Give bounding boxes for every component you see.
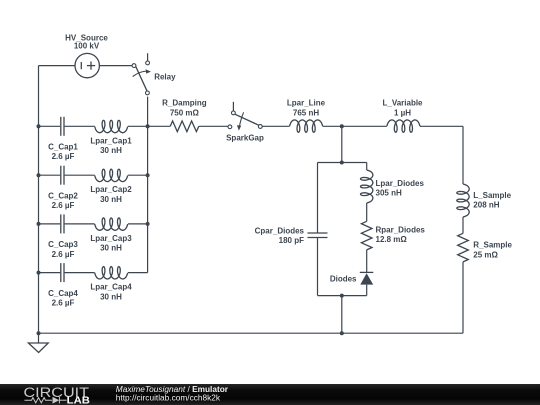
capacitor Cpar_Diodes xyxy=(308,233,328,238)
node branch split top xyxy=(340,161,344,165)
node right cap rail row2 xyxy=(146,173,150,177)
wire right branch top to Lpar_Diodes xyxy=(366,163,368,171)
svg-text:C_Cap42.6 µF: C_Cap42.6 µF xyxy=(48,289,78,308)
wire branch to bottom rail xyxy=(341,296,343,334)
wire right rail upper xyxy=(462,126,464,184)
node left rail bottom / ground xyxy=(37,331,41,335)
inductor Lpar_Cap1 xyxy=(95,120,128,132)
svg-text:HV_Source100 kV: HV_Source100 kV xyxy=(65,33,108,50)
node main wire to branch xyxy=(340,124,344,128)
wire left rail xyxy=(38,66,40,334)
wire R_Damping to SparkGap xyxy=(199,125,228,127)
wire Lpar_Cap1 to right rail xyxy=(128,125,148,127)
wire Lpar_Diodes to Rpar_Diodes xyxy=(366,203,368,221)
svg-text:Rpar_Diodes12.8 mΩ: Rpar_Diodes12.8 mΩ xyxy=(376,225,426,244)
wire row1 left rail to C_Cap1 xyxy=(39,125,61,127)
svg-text:Lpar_Diodes305 nH: Lpar_Diodes305 nH xyxy=(376,179,425,198)
footer bar xyxy=(0,384,540,405)
wire C_Cap3 to Lpar_Cap3 xyxy=(65,223,95,225)
CircuitLab logo schematic: wire, resistor, diode xyxy=(25,397,67,403)
capacitor C_Cap2 xyxy=(61,166,64,185)
wire HV source to relay xyxy=(99,65,132,67)
wire bottom rail xyxy=(39,332,464,334)
wire L_Variable to right rail xyxy=(420,125,463,127)
wire row4 left rail to C_Cap4 xyxy=(39,272,61,274)
node left rail row1 xyxy=(37,124,41,128)
wire Lpar_Cap3 to right rail xyxy=(128,223,148,225)
svg-text:SparkGap: SparkGap xyxy=(226,134,264,143)
wire row2 left rail to C_Cap2 xyxy=(39,174,61,176)
wire right rail between L_Sample and R_Sample xyxy=(462,217,464,233)
node left rail row2 xyxy=(37,173,41,177)
svg-text:Diodes: Diodes xyxy=(330,275,357,284)
resistor Rpar_Diodes xyxy=(361,221,372,250)
svg-text:Cpar_Diodes180 pF: Cpar_Diodes180 pF xyxy=(255,226,305,245)
svg-text:Lpar_Cap330 nH: Lpar_Cap330 nH xyxy=(90,234,132,253)
svg-text:http://circuitlab.com/cch8k2k: http://circuitlab.com/cch8k2k xyxy=(116,392,221,402)
capacitor C_Cap4 xyxy=(61,263,64,282)
node right cap rail row3 xyxy=(146,222,150,226)
inductor Lpar_Line xyxy=(290,120,323,132)
ground xyxy=(28,333,48,352)
svg-text:L_Sample208 nH: L_Sample208 nH xyxy=(473,191,511,210)
wire row3 left rail to C_Cap3 xyxy=(39,223,61,225)
wire branch bottom bar xyxy=(318,295,367,297)
capacitor C_Cap1 xyxy=(61,117,64,136)
wire node down to branch split xyxy=(341,126,343,162)
wire C_Cap4 to Lpar_Cap4 xyxy=(65,272,95,274)
wire left branch lower (from Cpar_Diodes) xyxy=(317,238,319,296)
resistor R_Damping xyxy=(170,121,199,132)
svg-text:L_Variable1 µH: L_Variable1 µH xyxy=(382,99,423,118)
svg-text:R_Sample25 mΩ: R_Sample25 mΩ xyxy=(473,241,512,260)
node left rail row3 xyxy=(37,222,41,226)
inductor L_Sample xyxy=(457,184,469,217)
svg-text:Lpar_Cap430 nH: Lpar_Cap430 nH xyxy=(90,283,132,302)
capacitor C_Cap3 xyxy=(61,214,64,233)
svg-text:Lpar_Cap230 nH: Lpar_Cap230 nH xyxy=(90,185,132,204)
wire Lpar_Line to node junction xyxy=(323,125,342,127)
inductor Lpar_Cap4 xyxy=(95,267,128,279)
inductor Lpar_Cap2 xyxy=(95,169,128,181)
svg-text:Lpar_Cap130 nH: Lpar_Cap130 nH xyxy=(90,136,132,155)
node branch to bottom rail xyxy=(340,331,344,335)
voltage source HV_Source xyxy=(75,53,99,77)
svg-text:LAB: LAB xyxy=(67,394,91,405)
node right cap rail row1 xyxy=(146,124,150,128)
wire row1 to R_Damping xyxy=(148,125,171,127)
node branch join bottom xyxy=(340,294,344,298)
inductor Lpar_Cap3 xyxy=(95,218,128,230)
svg-text:Relay: Relay xyxy=(154,73,176,82)
svg-text:Lpar_Line765 nH: Lpar_Line765 nH xyxy=(287,99,326,118)
logo diode triangle xyxy=(53,397,60,404)
wire Diodes anode to bottom bar xyxy=(366,285,368,296)
svg-text:C_Cap12.6 µF: C_Cap12.6 µF xyxy=(48,143,78,162)
svg-text:R_Damping750 mΩ: R_Damping750 mΩ xyxy=(162,99,207,118)
wire branch top bar xyxy=(318,162,367,164)
wire right rail lower xyxy=(462,262,464,333)
wire C_Cap2 to Lpar_Cap2 xyxy=(65,174,95,176)
wire Rpar_Diodes to Diodes cathode xyxy=(366,250,368,273)
diode Diodes xyxy=(360,272,374,284)
svg-text:C_Cap32.6 µF: C_Cap32.6 µF xyxy=(48,240,78,259)
wire SparkGap to Lpar_Line xyxy=(262,125,289,127)
wire relay bottom to row1 junction xyxy=(147,97,149,127)
node left rail row4 xyxy=(37,271,41,275)
wire cap-bank right rail xyxy=(147,126,149,272)
wire C_Cap1 to Lpar_Cap1 xyxy=(65,125,95,127)
switch Relay xyxy=(132,53,151,95)
inductor Lpar_Diodes xyxy=(361,170,373,203)
wire Lpar_Cap2 to right rail xyxy=(128,174,148,176)
wire left branch upper (to Cpar_Diodes) xyxy=(317,163,319,234)
switch SparkGap xyxy=(228,102,262,131)
wire junction to L_Variable xyxy=(342,125,387,127)
wire Lpar_Cap4 to right rail xyxy=(128,272,148,274)
inductor L_Variable xyxy=(387,120,420,132)
wire top from left rail to HV source xyxy=(39,65,76,67)
resistor R_Sample xyxy=(458,233,469,262)
svg-text:C_Cap22.6 µF: C_Cap22.6 µF xyxy=(48,191,78,210)
